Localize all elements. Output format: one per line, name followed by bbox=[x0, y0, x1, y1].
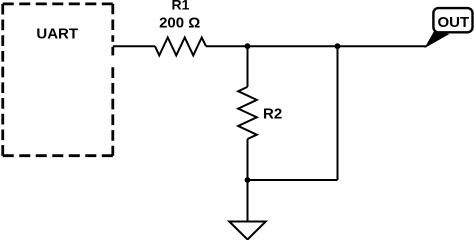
wire node to R2 bbox=[247, 46, 249, 87]
svg-text:OUT: OUT bbox=[437, 14, 469, 31]
svg-text:UART: UART bbox=[36, 25, 78, 42]
UART block dashed box: bottom edge bbox=[3, 154, 113, 157]
svg-text:R2: R2 bbox=[263, 106, 282, 123]
OUT flag tail bbox=[426, 32, 448, 47]
svg-text:R1: R1 bbox=[172, 0, 190, 12]
UART block dashed box: left edge bbox=[1, 4, 4, 156]
OUT flag box bbox=[433, 8, 472, 32]
node junction at R2 top bbox=[245, 43, 251, 49]
wire bottom horizontal bbox=[248, 179, 338, 181]
svg-text:200 Ω: 200 Ω bbox=[159, 15, 200, 32]
wire R2 to bottom node bbox=[247, 139, 249, 180]
wire R1 to OUT bbox=[206, 45, 427, 47]
resistor R2 bbox=[238, 87, 257, 139]
UART block dashed box: right edge upper bbox=[111, 4, 114, 42]
wire UART to R1 bbox=[113, 45, 155, 47]
resistor R1 bbox=[155, 38, 206, 56]
node junction at right branch bbox=[335, 43, 341, 49]
UART block dashed box: right edge stub below wire bbox=[111, 47, 114, 55]
UART block dashed box: top edge bbox=[3, 2, 113, 5]
UART block dashed box: right edge lower bbox=[111, 67, 114, 155]
wire node to ground bbox=[247, 180, 249, 222]
node junction bottom bbox=[245, 177, 251, 183]
ground bbox=[229, 222, 265, 240]
wire right vertical bbox=[337, 46, 339, 180]
